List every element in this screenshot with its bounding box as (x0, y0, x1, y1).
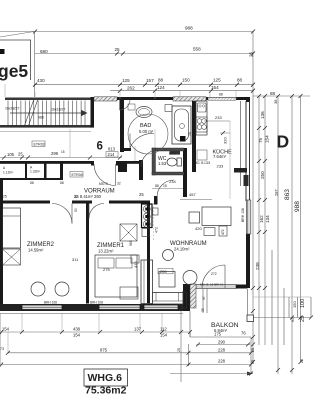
svg-text:88: 88 (60, 181, 64, 185)
svg-text:14.59m²: 14.59m² (28, 248, 44, 253)
svg-text:214: 214 (108, 152, 116, 157)
svg-text:EL03: EL03 (169, 152, 176, 156)
svg-text:238: 238 (255, 262, 260, 270)
svg-text:154: 154 (160, 333, 168, 338)
svg-text:162: 162 (259, 215, 264, 223)
svg-text:97: 97 (202, 296, 206, 300)
svg-text:813: 813 (108, 147, 116, 152)
svg-text:25: 25 (300, 359, 304, 363)
svg-text:15: 15 (163, 184, 167, 188)
svg-text:125: 125 (122, 78, 130, 83)
svg-text:150: 150 (182, 78, 190, 83)
svg-text:MD. B./115: MD. B./115 (195, 161, 211, 165)
svg-text:16x18/27: 16x18/27 (5, 107, 19, 111)
svg-text:16x18/27: 16x18/27 (51, 108, 65, 112)
svg-text:BRH 108: BRH 108 (44, 301, 57, 305)
svg-text:6: 6 (97, 141, 103, 153)
svg-text:228: 228 (218, 348, 226, 353)
svg-text:154: 154 (73, 333, 81, 338)
svg-text:438: 438 (73, 327, 81, 332)
svg-text:262: 262 (127, 86, 135, 91)
svg-text:75: 75 (258, 137, 263, 143)
svg-text:320: 320 (223, 137, 228, 144)
svg-text:ETR03: ETR03 (34, 143, 45, 147)
svg-text:25 8.41m² 260: 25 8.41m² 260 (74, 194, 102, 199)
svg-text:25: 25 (249, 51, 254, 57)
svg-text:157: 157 (146, 78, 154, 83)
svg-text:134: 134 (265, 215, 270, 223)
svg-text:25: 25 (300, 316, 306, 322)
svg-text:D: D (277, 132, 290, 152)
svg-text:430: 430 (37, 78, 45, 83)
svg-text:457: 457 (189, 192, 196, 197)
svg-text:BRH 108: BRH 108 (90, 301, 103, 305)
svg-text:228: 228 (218, 359, 226, 364)
svg-text:25: 25 (251, 348, 255, 352)
svg-text:988: 988 (185, 26, 193, 31)
svg-text:88: 88 (270, 91, 276, 96)
svg-text:136: 136 (260, 111, 265, 119)
svg-text:15: 15 (61, 150, 65, 154)
svg-text:988: 988 (294, 201, 301, 212)
svg-text:25: 25 (18, 152, 23, 157)
svg-text:76: 76 (241, 331, 246, 336)
svg-text:420: 420 (195, 226, 202, 231)
svg-text:472: 472 (155, 227, 159, 233)
svg-text:175: 175 (214, 332, 222, 337)
svg-text:299: 299 (51, 151, 59, 156)
svg-text:863: 863 (284, 189, 291, 200)
svg-text:1.53: 1.53 (158, 161, 167, 166)
svg-text:25: 25 (177, 348, 181, 352)
svg-text:154: 154 (265, 135, 270, 143)
svg-text:25: 25 (115, 47, 121, 52)
svg-text:154: 154 (2, 327, 10, 332)
svg-text:25: 25 (139, 192, 144, 197)
svg-text:112: 112 (160, 327, 167, 332)
svg-text:105: 105 (7, 152, 15, 157)
svg-text:558: 558 (193, 47, 201, 52)
svg-text:100: 100 (300, 299, 306, 308)
svg-text:150: 150 (292, 301, 297, 308)
svg-text:88: 88 (158, 78, 164, 83)
svg-text:32: 32 (117, 182, 121, 186)
svg-text:38: 38 (273, 99, 278, 104)
svg-text:WHG.6: WHG.6 (88, 372, 123, 384)
svg-text:233: 233 (217, 164, 224, 169)
svg-text:62: 62 (290, 317, 295, 322)
svg-text:311: 311 (72, 257, 79, 262)
svg-text:125: 125 (213, 78, 221, 83)
svg-text:88: 88 (237, 78, 243, 83)
svg-text:25: 25 (3, 195, 7, 199)
svg-text:287: 287 (274, 189, 279, 196)
svg-text:250: 250 (160, 269, 167, 274)
svg-text:137: 137 (134, 327, 142, 332)
svg-text:272: 272 (211, 272, 217, 276)
svg-text:25: 25 (251, 360, 255, 364)
svg-text:1.32m²: 1.32m² (30, 170, 41, 174)
svg-text:ETR04: ETR04 (72, 173, 83, 177)
svg-text:988: 988 (38, 116, 44, 120)
svg-text:88: 88 (30, 181, 34, 185)
svg-text:ge5: ge5 (0, 61, 28, 81)
svg-text:75.36m2: 75.36m2 (85, 385, 127, 397)
svg-text:233: 233 (215, 115, 222, 120)
svg-text:250: 250 (260, 171, 265, 179)
svg-text:875: 875 (100, 348, 108, 353)
svg-text:472: 472 (221, 229, 225, 235)
svg-text:13.22m²: 13.22m² (98, 249, 114, 254)
svg-text:88: 88 (155, 184, 159, 188)
svg-text:290: 290 (218, 340, 226, 345)
svg-text:7.64m²: 7.64m² (213, 154, 227, 159)
svg-text:124: 124 (157, 85, 165, 90)
svg-text:1.12m²: 1.12m² (3, 171, 14, 175)
svg-text:88: 88 (219, 93, 223, 97)
svg-text:24.10m²: 24.10m² (174, 247, 190, 252)
svg-text:BRH 138: BRH 138 (241, 208, 245, 222)
svg-text:MD. B. 15 BRH 5: MD. B. 15 BRH 5 (200, 283, 223, 287)
svg-text:73: 73 (0, 347, 4, 351)
svg-text:680: 680 (40, 49, 48, 54)
svg-text:MST5: MST5 (99, 182, 108, 186)
svg-text:50: 50 (74, 208, 78, 212)
